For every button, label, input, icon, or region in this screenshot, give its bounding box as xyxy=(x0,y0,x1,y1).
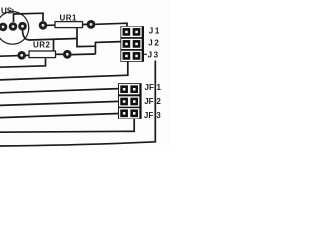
svg-text:UR2: UR2 xyxy=(33,41,51,50)
svg-text:3: 3 xyxy=(156,111,161,120)
svg-text:J1: J1 xyxy=(149,27,161,36)
svg-text:1: 1 xyxy=(157,83,162,92)
svg-text:J2: J2 xyxy=(148,39,160,48)
svg-text:J3: J3 xyxy=(148,51,160,60)
svg-text:JF: JF xyxy=(145,83,154,92)
svg-text:JF: JF xyxy=(144,97,153,106)
svg-text:1: 1 xyxy=(11,9,15,16)
svg-text:JF: JF xyxy=(144,111,153,120)
svg-text:2: 2 xyxy=(156,97,161,106)
svg-text:UR1: UR1 xyxy=(60,14,78,23)
